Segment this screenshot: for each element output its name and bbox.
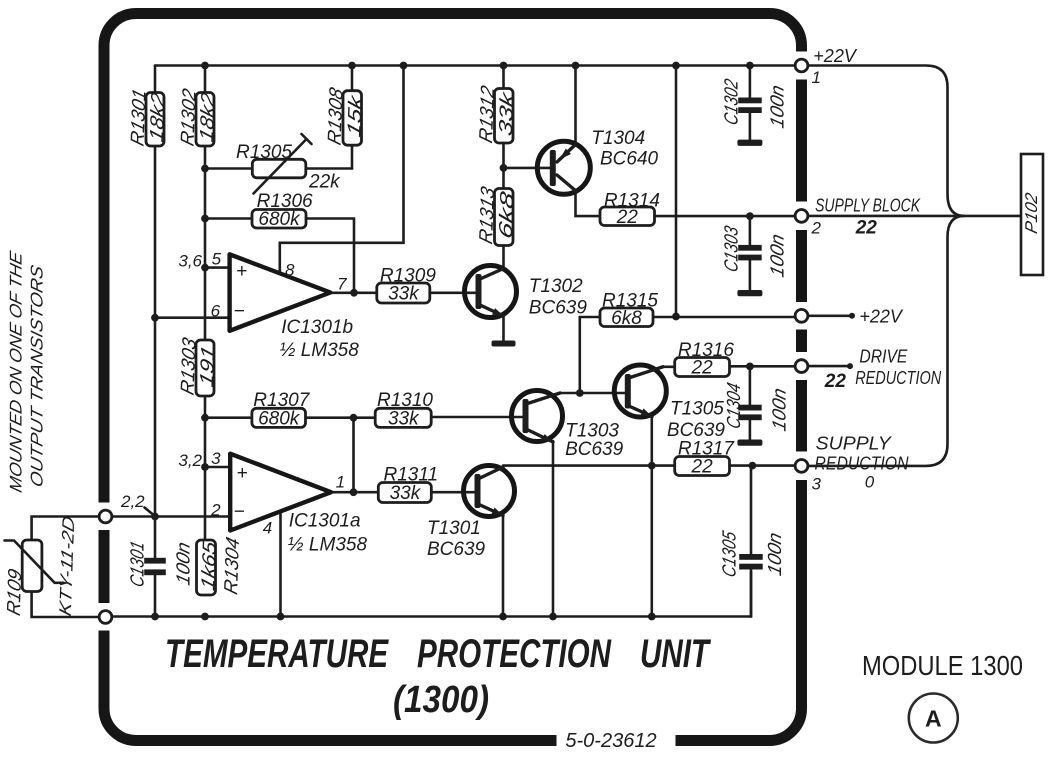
module border frame [95,14,811,750]
revision circle A [909,694,958,743]
svg-text:4: 4 [263,519,272,538]
svg-text:6: 6 [211,302,221,321]
svg-text:KTY-11-2D: KTY-11-2D [55,514,78,619]
wire R1317 to supply reduction terminal [730,462,796,470]
wire R1307/R1310 row and feedback drop to pin1 [205,414,523,496]
svg-text:18k2: 18k2 [147,90,169,144]
transistor T1303 BC639 [512,391,624,461]
svg-text:3: 3 [211,449,221,468]
svg-text:−: − [233,301,244,322]
svg-text:C1305: C1305 [720,529,741,579]
svg-text:C1302: C1302 [722,77,743,127]
wire IC1301a pin3 input [205,466,231,469]
svg-text:22k: 22k [308,172,341,193]
svg-text:R1312: R1312 [476,83,498,145]
svg-text:R1304: R1304 [221,535,243,597]
wire IC1301a pin4 to bottom rail [279,511,282,617]
svg-text:T1301: T1301 [427,518,481,539]
svg-text:3,6: 3,6 [178,252,202,271]
svg-text:½ LM358: ½ LM358 [280,340,360,361]
resistor R1315 6k8 [600,291,658,329]
svg-text:100n: 100n [768,83,789,130]
svg-text:6k8: 6k8 [611,308,642,329]
wire T1304 emitter to bus [574,66,577,145]
svg-text:C1303: C1303 [722,224,743,274]
svg-text:2: 2 [811,219,822,238]
svg-text:+22V: +22V [813,46,858,66]
resistor R1310 33k [375,390,433,429]
capacitor C1303 [722,216,789,296]
svg-text:22: 22 [691,456,714,477]
svg-text:8: 8 [285,261,295,280]
wire IC1301b pin8 to +22V [280,66,404,273]
wire divider column x205 (R1302/R1303/R1304 net) [201,66,209,596]
svg-text:IC1301a: IC1301a [289,511,361,532]
terminal 3 supply reduction [795,434,909,494]
terminal 1 +22V [795,46,858,87]
op-amp IC1301b 1/2 LM358 [230,254,360,361]
svg-text:100n: 100n [174,540,195,587]
wire IC1301b pin5 input [205,266,230,269]
resistor R1309 33k [377,266,437,305]
svg-text:22: 22 [855,218,878,239]
svg-text:MOUNTED ON ONE OF THE: MOUNTED ON ONE OF THE [6,249,26,494]
svg-text:18k2: 18k2 [197,90,219,144]
thermistor R109 KTY-11-2D [4,514,99,619]
wire R1306 row and feedback drop to pin7 [205,219,358,297]
capacitor C1301 [128,539,195,616]
svg-text:5-0-23612: 5-0-23612 [565,730,656,752]
wire T1303 emitter down to bottom rail [552,441,555,617]
svg-text:+22V: +22V [859,307,904,327]
svg-text:P102: P102 [1021,190,1041,235]
wire sensor column x155 (R1301/C1301/pin6 net) [151,66,159,558]
note mounted on one of the output transistors [6,249,47,494]
wire T1302 collector to R1313 [502,246,505,269]
svg-text:33k: 33k [496,89,518,139]
terminal mid +22V [795,307,904,327]
svg-text:C1304: C1304 [724,381,745,431]
svg-text:680k: 680k [258,408,301,429]
svg-text:100n: 100n [765,530,786,577]
wire supply block to P102 [808,215,1021,218]
wire T1305 collector to R1316 [663,365,675,368]
svg-text:+: + [236,463,247,484]
svg-text:T1304: T1304 [591,128,645,149]
wire T1305 emitter down to bottom rail [650,414,653,617]
svg-text:1: 1 [336,473,345,492]
wire T1301 emitter down to bottom rail [502,515,505,617]
svg-text:IC1301b: IC1301b [281,317,353,338]
resistor R1313 6k8 [476,184,518,246]
transistor T1302 BC639 [465,266,588,319]
terminal drive reduction [795,347,942,393]
svg-text:1: 1 [812,68,821,87]
ground bar T1302 emitter [492,341,516,347]
svg-text:T1305: T1305 [670,399,724,420]
svg-text:BC640: BC640 [600,149,659,170]
svg-text:6k8: 6k8 [496,189,518,241]
svg-text:+: + [236,261,247,282]
wire T1304 collector to R1314 [576,192,601,217]
transistor T1305 BC639 [614,365,725,441]
svg-text:DRIVE: DRIVE [859,347,908,367]
svg-text:33k: 33k [388,283,420,304]
svg-text:REDUCTION: REDUCTION [855,368,942,388]
svg-text:5: 5 [212,250,222,269]
wire bottom rail [106,572,752,620]
svg-text:3,2: 3,2 [178,451,202,470]
wire IC1301b pin6 input [155,316,230,319]
resistor R1305 22k variable [236,134,341,194]
capacitor C1304 [724,366,790,445]
op-amp IC1301a 1/2 LM358 [230,454,367,556]
resistor R1301 18k2 [128,87,169,149]
svg-text:OUTPUT TRANSISTORS: OUTPUT TRANSISTORS [27,263,47,489]
svg-text:15k: 15k [345,92,367,140]
terminal sensor top [99,510,112,523]
capacitor C1302 [722,66,789,146]
svg-text:MODULE 1300: MODULE 1300 [862,650,1023,681]
wire IC1301b output to R1309 to T1302 base [330,291,476,294]
svg-text:A: A [925,706,942,732]
resistor R1311 33k [378,465,438,504]
resistor R1316 22 [675,340,735,378]
resistor R1308 15k [325,85,367,147]
resistor R1307 680k [252,390,311,429]
svg-text:33k: 33k [388,408,420,429]
wire T1302 emitter to ground bar [502,316,505,341]
resistor R1304 1k65 [197,535,244,597]
wire T1301 collector row to R1317 [503,462,675,470]
svg-text:22: 22 [824,371,847,392]
svg-text:100n: 100n [770,386,791,433]
resistor R1317 22 [675,439,736,478]
transistor T1304 BC640 [537,128,658,194]
svg-text:R1308: R1308 [325,85,347,147]
wire T1303 collector to T1305 base [560,392,625,395]
svg-text:SUPPLY: SUPPLY [816,434,893,454]
resistor R1302 18k2 [178,86,219,148]
wire harness supply reduction to P102 [808,216,964,466]
svg-text:100n: 100n [768,232,789,279]
wire T1304 base [504,167,552,170]
svg-text:0: 0 [865,473,875,492]
svg-text:22: 22 [616,207,639,228]
wire R1305 row [205,167,352,170]
svg-text:SUPPLY BLOCK: SUPPLY BLOCK [815,196,921,216]
node 2,2 [120,492,153,515]
wire R1308 column [351,66,354,169]
svg-text:22: 22 [691,357,714,378]
svg-text:191: 191 [197,344,219,390]
terminal sensor bottom [99,611,112,624]
wire drive reduction stub [808,363,853,369]
wire +22V top bus [155,62,795,70]
terminal 2 supply block [795,196,921,239]
svg-text:(1300): (1300) [393,679,489,721]
svg-text:BC639: BC639 [529,298,588,319]
resistor R1314 22 [600,191,660,228]
wire R1312/R1313 column [500,66,508,191]
svg-text:T1302: T1302 [529,276,583,297]
wire sensor input to IC1301a pin2 [99,515,231,518]
wire +22V vertical feed x676 [672,66,680,321]
svg-text:1k65: 1k65 [199,539,221,593]
wire R1316 to drive reduction terminal [730,363,796,371]
resistor R1312 33k [476,83,518,145]
svg-text:TEMPERATURE PROTECTION UNIT: TEMPERATURE PROTECTION UNIT [165,632,712,676]
wire harness +22V to P102 [808,66,964,216]
svg-text:R1313: R1313 [476,184,498,246]
svg-text:3: 3 [812,475,822,494]
svg-text:R1305: R1305 [236,142,292,163]
svg-text:680k: 680k [258,209,301,230]
wire mid +22V stub [808,313,855,319]
wire R1314 to supply block terminal [655,212,796,220]
svg-text:2,2: 2,2 [120,492,145,511]
wire R1315 left lead down to T1305 base net [576,317,600,397]
svg-text:½ LM358: ½ LM358 [288,535,368,556]
svg-text:REDUCTION: REDUCTION [815,454,910,474]
svg-text:BC639: BC639 [427,539,486,560]
svg-text:33k: 33k [390,483,422,504]
svg-text:2: 2 [210,501,221,520]
svg-text:BC639: BC639 [667,420,726,441]
svg-text:R109: R109 [4,567,26,619]
title temperature protection unit [165,632,712,721]
capacitor C1305 [720,466,786,617]
svg-text:7: 7 [337,275,347,294]
transistor T1301 BC639 [427,466,515,561]
resistor R1303 191 [178,335,219,397]
connector P102 [1021,154,1043,275]
resistor R1306 680k [252,191,313,230]
svg-text:−: − [233,502,244,523]
wire IC1301a output to R1311 to T1301 base [331,491,475,494]
svg-text:C1301: C1301 [128,539,149,589]
svg-text:BC639: BC639 [565,439,624,460]
wire R1315 to mid +22V terminal [653,316,795,319]
